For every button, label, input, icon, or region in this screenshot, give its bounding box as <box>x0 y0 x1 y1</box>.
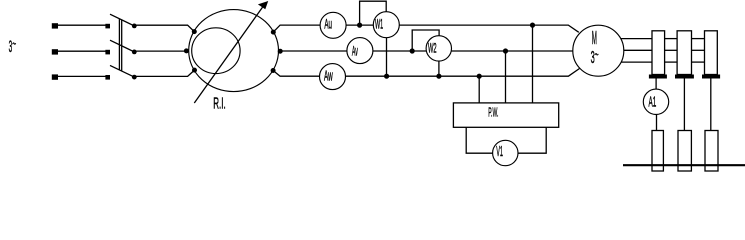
ammeter Aw <box>320 64 346 90</box>
regulator terminal dot left W <box>192 68 197 73</box>
induction regulator R.I. outer circle <box>189 10 279 92</box>
svg-text:Aw: Aw <box>324 68 333 84</box>
switch contact square W <box>105 75 110 80</box>
wire switch to regulator W <box>136 70 195 76</box>
regulator terminal dot right V <box>278 49 283 54</box>
svg-text:R.I.: R.I. <box>213 96 226 113</box>
rheostat R1 upper <box>652 31 665 75</box>
switch contact dot W <box>132 75 137 80</box>
junction dot W2 tap <box>410 48 415 53</box>
svg-text:A1: A1 <box>649 94 657 110</box>
junction dot bottom to P.W. <box>477 74 482 79</box>
svg-text:M: M <box>592 28 597 48</box>
rheostat R3 upper <box>705 31 718 75</box>
svg-text:3: 3 <box>9 37 13 56</box>
svg-text:Av: Av <box>352 44 358 59</box>
voltmeter V1 <box>493 140 518 165</box>
junction dot middle to P.W. <box>503 48 508 53</box>
svg-text:V1: V1 <box>496 144 503 160</box>
svg-text:P.W.: P.W. <box>488 105 498 120</box>
P.W. measuring box <box>453 103 558 127</box>
wire regulator to Au <box>273 25 320 32</box>
terminal square V <box>52 49 58 54</box>
brush bar R1 <box>649 75 667 79</box>
svg-text:W2: W2 <box>428 41 437 56</box>
wire switch to regulator U <box>136 25 194 31</box>
switch blade W <box>110 65 134 77</box>
wire W2 to motor (middle phase) <box>451 50 573 52</box>
ammeter A1 <box>643 89 668 114</box>
wire top bus to P.W. <box>532 25 534 103</box>
terminal square W <box>52 74 58 79</box>
wire bar3 to load resistor <box>710 79 712 131</box>
switch Q1 rails <box>118 19 120 70</box>
wire W1 to motor (top phase) <box>399 25 579 32</box>
W1 current return wire <box>386 38 388 76</box>
load resistor RB <box>678 131 691 172</box>
wire motor to rheostat middle <box>624 49 652 51</box>
wattmeter W2 <box>426 36 451 61</box>
wire bottom bus to P.W. <box>478 76 480 103</box>
switch contact square U <box>105 24 110 29</box>
ammeter Av <box>347 38 373 64</box>
wire phase V source <box>55 50 106 52</box>
junction dot top to P.W. <box>530 23 535 28</box>
regulator terminal dot right U <box>271 30 276 35</box>
wire P.W. to V1 right <box>518 127 546 153</box>
regulator terminal dot left U <box>192 29 197 34</box>
wire middle bus to P.W. <box>505 51 507 103</box>
load resistor RC <box>705 131 718 172</box>
switch contact dot V <box>132 50 137 55</box>
svg-text:Au: Au <box>324 17 332 32</box>
wire motor to rheostat bottom <box>621 61 652 63</box>
wire switch to regulator V <box>136 50 186 52</box>
switch contact square V <box>105 50 110 55</box>
junction dot W1 tap <box>357 23 362 28</box>
wire A1 to load resistor <box>656 115 658 131</box>
motor M circle <box>573 25 624 76</box>
wire P.W. to V1 left <box>466 127 493 153</box>
rheostat R2 upper <box>677 31 691 75</box>
switch blade U <box>110 14 134 26</box>
regulator arrow head <box>258 1 268 9</box>
wire Aw to motor (bottom phase) <box>346 69 580 77</box>
wire regulator to Av <box>280 50 347 52</box>
wire regulator to Aw <box>273 71 320 77</box>
wire phase U source <box>55 24 106 26</box>
ammeter Au <box>320 12 346 38</box>
W1 voltage bracket <box>360 1 387 25</box>
junction dot W2 bottom <box>436 74 441 79</box>
switch blade V <box>110 40 134 52</box>
brush bar R2 <box>675 75 694 79</box>
svg-text:3: 3 <box>591 47 595 67</box>
wire phase W source <box>55 75 106 77</box>
junction dot W1 bottom <box>384 74 389 79</box>
wire Av to W2 <box>373 50 427 52</box>
brush bar R3 <box>702 75 720 79</box>
wire Au to W1 <box>346 24 373 26</box>
wattmeter W1 <box>373 12 399 38</box>
W2 voltage bracket <box>412 30 439 51</box>
regulator terminal dot left V <box>184 48 189 53</box>
wire bar2 to load resistor <box>683 79 685 131</box>
terminal square U <box>52 23 58 28</box>
load resistor RA <box>652 131 663 172</box>
switch contact dot U <box>132 24 137 29</box>
regulator terminal dot right W <box>271 68 276 73</box>
common bottom bus <box>623 164 745 166</box>
induction regulator inner circle <box>192 28 240 74</box>
wire motor to rheostat top <box>621 38 652 40</box>
W2 bottom wire <box>438 61 440 76</box>
svg-text:W1: W1 <box>375 17 383 32</box>
wire bar1 to A1 <box>655 79 657 90</box>
regulator adjustment arrow shaft <box>194 7 262 103</box>
